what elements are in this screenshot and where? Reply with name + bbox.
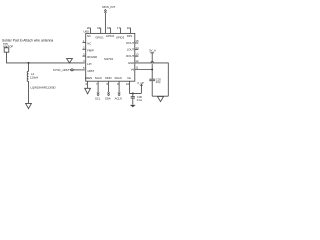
ground arrow below L4 bbox=[26, 103, 32, 108]
svg-text:FMIP: FMIP bbox=[87, 48, 94, 52]
svg-text:0.1u: 0.1u bbox=[137, 98, 143, 102]
pin 7 SCLK to SCL bbox=[95, 76, 102, 101]
pin 18 GPIO2 bbox=[106, 26, 115, 38]
svg-text:15: 15 bbox=[135, 39, 139, 43]
svg-text:10: 10 bbox=[126, 82, 130, 86]
svg-text:18: 18 bbox=[107, 26, 111, 30]
ground right rail bbox=[152, 96, 168, 101]
pin 5 nRST bbox=[83, 66, 95, 73]
pin 15 DOUT bbox=[126, 39, 139, 45]
pin 1 NC bbox=[82, 39, 91, 46]
pin 9 RCLK to ACLK bbox=[115, 76, 123, 101]
wire TP5 to LPI pin 4 bbox=[7, 52, 85, 63]
svg-text:12: 12 bbox=[135, 59, 139, 63]
svg-text:3V_A: 3V_A bbox=[149, 48, 156, 52]
svg-text:SDA: SDA bbox=[105, 97, 111, 101]
svg-text:DFS: DFS bbox=[127, 34, 133, 38]
pin 16 DFS bbox=[127, 26, 133, 38]
inductor L4 bbox=[27, 63, 55, 104]
net flag RDS_INT bbox=[102, 5, 115, 13]
svg-text:U60: U60 bbox=[83, 30, 89, 34]
pin 6 nSEN ground bbox=[85, 76, 92, 94]
svg-text:SCLK: SCLK bbox=[95, 76, 102, 80]
svg-text:DOUT: DOUT bbox=[126, 41, 134, 45]
svg-text:14: 14 bbox=[135, 46, 139, 50]
test point TP5 pad bbox=[4, 46, 9, 52]
svg-text:ACLK: ACLK bbox=[115, 97, 122, 101]
svg-text:GPIO1: GPIO1 bbox=[95, 35, 104, 39]
svg-text:V_uP: V_uP bbox=[137, 81, 144, 85]
pin 20 NC bbox=[87, 26, 91, 38]
pin 11 Vd bbox=[131, 66, 152, 72]
svg-text:13: 13 bbox=[135, 52, 139, 56]
svg-text:ROUT: ROUT bbox=[126, 54, 134, 58]
pin 19 GPIO1 bbox=[95, 26, 104, 40]
svg-text:Vd: Vd bbox=[131, 68, 135, 72]
ground below C30 bbox=[130, 105, 136, 107]
svg-text:nSEN: nSEN bbox=[85, 76, 92, 80]
net label SYNC_nRST bbox=[53, 68, 74, 72]
svg-text:19: 19 bbox=[97, 26, 101, 30]
capacitor C30 bbox=[131, 93, 143, 104]
svg-text:GPIO3: GPIO3 bbox=[116, 35, 125, 39]
svg-text:11: 11 bbox=[135, 66, 138, 70]
svg-text:Si4703: Si4703 bbox=[104, 57, 113, 61]
svg-text:LOUT: LOUT bbox=[127, 48, 135, 52]
pin 14 LOUT bbox=[127, 46, 139, 52]
svg-text:16: 16 bbox=[127, 26, 131, 30]
svg-text:NC: NC bbox=[87, 34, 91, 38]
power flag 3V_A bbox=[149, 48, 156, 69]
power flag V_uP bbox=[137, 81, 144, 93]
svg-text:SCL: SCL bbox=[95, 97, 101, 101]
pin 17 GPIO3 bbox=[116, 26, 125, 40]
capacitor C20 bbox=[149, 70, 161, 97]
pin 4 LPI bbox=[83, 59, 92, 66]
svg-text:LPI: LPI bbox=[87, 62, 91, 66]
svg-text:Vio: Vio bbox=[127, 76, 131, 80]
svg-text:GPIO2: GPIO2 bbox=[106, 34, 115, 38]
pin 2 FMIP bbox=[82, 46, 94, 53]
svg-text:LQW18ANR12J00D: LQW18ANR12J00D bbox=[31, 86, 56, 90]
svg-text:nRST: nRST bbox=[87, 69, 94, 73]
svg-text:22p: 22p bbox=[156, 80, 161, 84]
svg-text:20: 20 bbox=[87, 26, 91, 30]
pin 3 RFGND bbox=[82, 52, 97, 59]
svg-text:RDS_INT: RDS_INT bbox=[102, 5, 115, 9]
pin 12 GND bbox=[128, 59, 168, 96]
wire nRST to pin 5 bbox=[74, 69, 85, 71]
svg-text:RCLK: RCLK bbox=[115, 76, 123, 80]
svg-text:NC: NC bbox=[87, 42, 91, 46]
svg-text:SYNC_nRST: SYNC_nRST bbox=[53, 68, 70, 72]
antenna symbol at LPI bbox=[67, 59, 73, 63]
svg-text:17: 17 bbox=[117, 26, 121, 30]
junction node Vd/3V_A bbox=[151, 69, 153, 71]
svg-text:RFGND: RFGND bbox=[87, 55, 97, 59]
svg-text:Solder Pad to Attach wire ante: Solder Pad to Attach wire antenna bbox=[2, 39, 53, 43]
svg-text:GND: GND bbox=[128, 61, 134, 65]
pin 13 ROUT bbox=[126, 52, 139, 58]
svg-text:120nH: 120nH bbox=[30, 76, 38, 80]
junction node C30 bbox=[132, 92, 134, 94]
wire RDS_INT to IC top bbox=[104, 13, 106, 34]
svg-text:SDIO: SDIO bbox=[105, 76, 113, 80]
IC U60 body bbox=[86, 33, 135, 81]
junction node antenna bbox=[28, 62, 30, 64]
pin 8 SDIO to SDA bbox=[105, 76, 113, 101]
pin 10 Vio bbox=[126, 76, 141, 94]
